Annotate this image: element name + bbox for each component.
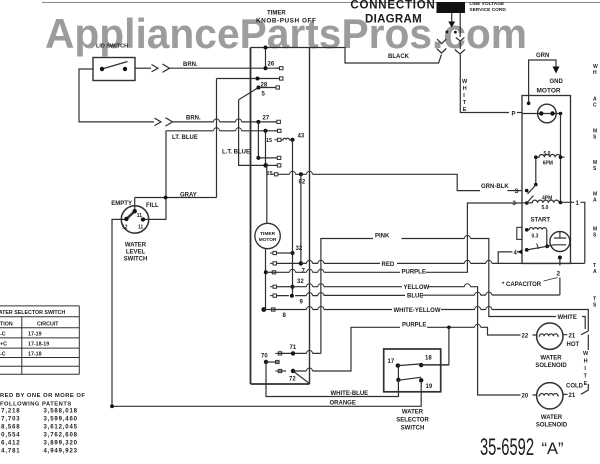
wire BRN upper from lid switch [135, 67, 151, 69]
svg-text:18: 18 [425, 356, 432, 362]
svg-text:WATER: WATER [540, 356, 562, 362]
svg-text:S: S [515, 189, 519, 195]
svg-text:START: START [531, 218, 551, 224]
timer box left edge [250, 48, 252, 385]
svg-text:A: A [593, 198, 597, 204]
motor centrifugal blade S [528, 185, 536, 194]
white-blue wire [266, 362, 399, 397]
start winding coil [527, 228, 547, 230]
svg-text:ORANGE: ORANGE [330, 401, 356, 407]
svg-text:3,588,018: 3,588,018 [44, 409, 78, 415]
svg-text:62: 62 [299, 180, 306, 186]
svg-text:-C: -C [0, 332, 6, 338]
motor pin 3 blade [527, 196, 534, 204]
svg-text:PURPLE: PURPLE [402, 270, 426, 276]
svg-text:17: 17 [388, 359, 395, 365]
white-yellow wire pin8 [264, 310, 589, 332]
svg-text:43: 43 [298, 134, 305, 140]
svg-text:17-18: 17-18 [28, 352, 42, 358]
pin 72 dot + blade [291, 369, 295, 373]
svg-text:-C: -C [0, 352, 6, 358]
svg-text:E: E [463, 107, 467, 113]
wire 62 to pin 7 vertical [300, 174, 302, 263]
svg-text:14,781: 14,781 [0, 449, 20, 455]
svg-text:EMPTY: EMPTY [111, 201, 132, 207]
svg-text:BRN.: BRN. [183, 62, 198, 68]
svg-text:+C: +C [0, 342, 7, 348]
lid switch box [93, 58, 135, 81]
pin 32a wire [277, 252, 293, 254]
start switch riser [546, 230, 548, 247]
table text [0, 310, 65, 358]
solenoid hot circle [537, 323, 563, 349]
svg-text:88,568: 88,568 [0, 425, 20, 431]
svg-text:WATER: WATER [125, 243, 147, 249]
pink wire pin71 [321, 239, 585, 354]
timer pin 15 coil + 43 vertical [282, 138, 293, 140]
svg-text:WHITE-BLUE: WHITE-BLUE [331, 391, 369, 397]
svg-text:WATER SELECTOR SWITCH: WATER SELECTOR SWITCH [0, 310, 65, 316]
motor tab rect [517, 227, 522, 239]
white-yellow drop to solenoid 21 hot [563, 331, 588, 335]
motor main winding coil [536, 154, 565, 157]
svg-text:GRN: GRN [536, 53, 549, 59]
wire L.T. BLUE second (pin5 blade drop) [239, 100, 266, 166]
svg-text:17-18-19: 17-18-19 [28, 342, 49, 348]
purple2 wire pin72 to solenoid 22 [293, 327, 537, 371]
orange wire [112, 392, 421, 407]
wire water level right contact [143, 131, 166, 220]
svg-text:67,703: 67,703 [0, 417, 20, 423]
svg-text:WHITE: WHITE [558, 315, 577, 321]
svg-text:32: 32 [296, 246, 303, 252]
svg-text:H: H [584, 359, 588, 365]
wire LT BLUE to timer [166, 130, 278, 132]
timer box right edge [309, 48, 311, 385]
wire water level empty drop [112, 219, 126, 406]
motor rotor circle [538, 104, 557, 123]
svg-text:HOT: HOT [567, 342, 580, 348]
motor rotor line [522, 113, 561, 115]
svg-text:6PM: 6PM [543, 161, 553, 167]
svg-text:4PM: 4PM [542, 196, 552, 202]
blade pin 5 [239, 88, 259, 100]
svg-text:CONNECTION: CONNECTION [350, 0, 435, 12]
right edge fragments [593, 64, 598, 309]
wire BRN lower to timer pin 27 [173, 121, 277, 123]
timer pin 5 dot [257, 86, 261, 90]
svg-text:3,612,045: 3,612,045 [44, 425, 78, 431]
svg-text:12: 12 [122, 225, 128, 231]
svg-text:L.T. BLUE: L.T. BLUE [222, 150, 250, 156]
plug connector chevrons right [455, 38, 465, 55]
wire WHITE drop to motor P [460, 55, 509, 113]
svg-text:27: 27 [263, 116, 270, 122]
svg-text:BLACK: BLACK [388, 54, 410, 60]
svg-text:GND: GND [550, 79, 564, 85]
svg-text:22: 22 [522, 334, 529, 340]
connector chevrons BRN lower [166, 118, 173, 126]
motor box [522, 96, 571, 264]
patent text [0, 393, 85, 455]
svg-text:21: 21 [569, 393, 576, 399]
pin 71 wire [278, 352, 321, 354]
timer top edge / BLACK wire to plug [251, 48, 442, 64]
pin 70 [264, 360, 268, 364]
water level contacts [133, 209, 137, 213]
svg-text:2: 2 [557, 271, 561, 278]
gray junction dot [164, 196, 168, 200]
timer pin 28 dot [256, 77, 260, 81]
selector blades [398, 364, 421, 366]
svg-text:RED: RED [382, 262, 395, 268]
svg-text:COLD: COLD [566, 384, 584, 390]
wire GRN [529, 60, 556, 103]
svg-text:TION: TION [0, 322, 13, 328]
svg-text:A: A [593, 269, 597, 275]
svg-text:4,949,923: 4,949,923 [44, 449, 78, 455]
lid switch contact dots [100, 67, 104, 71]
water level switch circle [121, 206, 148, 233]
svg-text:DIAGRAM: DIAGRAM [365, 14, 422, 26]
svg-text:SOLENOID: SOLENOID [535, 363, 567, 369]
svg-text:SOLENOID: SOLENOID [536, 423, 568, 429]
svg-text:“A”: “A” [542, 440, 564, 458]
plug black rect [437, 2, 466, 13]
svg-text:LT. BLUE: LT. BLUE [172, 135, 198, 141]
svg-text:WHITE-YELLOW: WHITE-YELLOW [394, 308, 441, 314]
capacitor pointer line [544, 278, 558, 282]
motor pin 1 stub [561, 202, 585, 263]
svg-text:LID SWITCH: LID SWITCH [96, 44, 128, 50]
svg-text:5.0: 5.0 [542, 205, 549, 211]
timer pin 26 dot [264, 66, 268, 70]
connector chevrons BRN upper [163, 64, 170, 72]
svg-text:MOTOR: MOTOR [537, 88, 561, 95]
timer pin 131 dot [264, 129, 268, 133]
svg-text:P: P [512, 112, 516, 118]
wire BRN upper to timer pin 26 [170, 67, 280, 69]
capacitor circle [550, 232, 570, 252]
start switch blade pin 4 [527, 246, 548, 250]
svg-text:26: 26 [268, 62, 275, 68]
timer motor circle [255, 223, 280, 248]
svg-text:LEVEL: LEVEL [126, 250, 146, 256]
svg-text:H: H [593, 70, 597, 76]
yellow wire pin32b to solenoid 20 [277, 286, 293, 288]
wire gray horizontal [135, 197, 217, 199]
wire cap 2 drop [559, 258, 561, 295]
svg-text:11: 11 [138, 225, 144, 231]
svg-text:5.0: 5.0 [544, 151, 551, 157]
svg-text:90,554: 90,554 [0, 433, 20, 439]
svg-text:PURPLE: PURPLE [402, 323, 426, 329]
plug left arrowhead [448, 22, 455, 28]
svg-text:CIRCUIT: CIRCUIT [37, 322, 59, 328]
svg-text:MOTOR: MOTOR [259, 237, 277, 243]
GND arrowhead [553, 67, 560, 74]
table lines [0, 306, 79, 374]
blue wire pin9 to capacitor 2 [277, 294, 560, 297]
svg-text:36,412: 36,412 [0, 441, 20, 447]
svg-text:* CAPACITOR: * CAPACITOR [502, 282, 542, 288]
svg-text:15: 15 [267, 171, 273, 177]
water selector switch box [384, 349, 441, 392]
svg-text:GRN-BLK: GRN-BLK [481, 184, 509, 190]
svg-text:GRAY: GRAY [180, 193, 197, 199]
motor grn junction dot [527, 102, 531, 106]
svg-text:C: C [593, 103, 597, 109]
wire fill contact riser [134, 198, 136, 212]
timer terminal stubs [269, 67, 284, 373]
svg-text:E: E [584, 381, 588, 387]
svg-text:PINK: PINK [375, 234, 390, 240]
svg-text:21: 21 [569, 333, 576, 339]
svg-text:FOLLOWING PATENTS: FOLLOWING PATENTS [0, 401, 72, 407]
svg-text:WATER: WATER [402, 410, 424, 416]
line voltage plug drop left [451, 13, 453, 22]
svg-text:17-19: 17-19 [28, 332, 42, 338]
svg-text:3,599,460: 3,599,460 [44, 417, 78, 423]
wire pin 28 [217, 78, 280, 80]
svg-text:H: H [463, 86, 467, 92]
svg-text:SERVICE CORD: SERVICE CORD [469, 7, 506, 13]
svg-text:RED BY ONE OR MORE OF: RED BY ONE OR MORE OF [0, 393, 85, 399]
svg-text:15: 15 [266, 138, 272, 144]
timer box bottom edge [251, 383, 310, 385]
svg-text:LINE VOLTAGE: LINE VOLTAGE [469, 1, 505, 7]
svg-text:SWITCH: SWITCH [124, 257, 148, 263]
pin 26 riser [265, 48, 267, 69]
selector 18 riser [447, 326, 451, 330]
wire gray vertical to pin 28 [216, 79, 218, 198]
plug drop right [459, 13, 461, 49]
svg-text:KNOB-PUSH OFF: KNOB-PUSH OFF [256, 18, 316, 25]
svg-text:35-6592: 35-6592 [480, 434, 534, 461]
svg-text:20: 20 [522, 394, 529, 400]
svg-text:3,762,608: 3,762,608 [44, 433, 78, 439]
svg-text:TIMER: TIMER [260, 231, 275, 237]
svg-text:BLUE: BLUE [407, 294, 423, 300]
pin 7 wire / RED [277, 262, 301, 264]
plug connector chevrons left [437, 39, 447, 53]
svg-text:BRN.: BRN. [186, 116, 201, 122]
svg-text:3,899,320: 3,899,320 [44, 441, 78, 447]
svg-text:72: 72 [289, 377, 296, 383]
svg-text:28: 28 [261, 83, 268, 89]
motor left winding vertical [535, 157, 537, 184]
svg-text:W: W [462, 79, 468, 85]
svg-text:37,218: 37,218 [0, 409, 20, 415]
timer pin 27 dot + blade down [256, 120, 260, 124]
svg-text:FILL: FILL [146, 203, 159, 209]
solenoid cold circle [537, 383, 563, 409]
wire 15-62 to GRN-BLK and motor S [278, 174, 480, 190]
svg-text:TIMER: TIMER [267, 11, 286, 17]
connector dots [446, 31, 449, 34]
svg-text:0.3: 0.3 [532, 234, 539, 240]
svg-text:SELECTOR: SELECTOR [396, 418, 429, 424]
svg-text:WATER: WATER [541, 415, 563, 421]
svg-text:19: 19 [426, 384, 433, 390]
water level blade [126, 211, 134, 219]
svg-text:W: W [583, 351, 589, 357]
purple1 wire to motor 3 [266, 203, 522, 272]
svg-text:YELLOW: YELLOW [404, 285, 430, 291]
motor aux winding coil [522, 200, 561, 203]
svg-text:11: 11 [137, 213, 143, 219]
svg-text:32: 32 [297, 279, 304, 285]
motor right vertical [560, 114, 562, 203]
svg-text:70: 70 [261, 354, 268, 360]
solenoid cold right wire [563, 384, 588, 394]
wire lid switch left loop [79, 69, 154, 122]
pin 4 wire arrow [498, 252, 522, 263]
lid switch blade [102, 62, 128, 70]
top border line [42, 2, 600, 4]
svg-text:71: 71 [290, 345, 297, 351]
svg-text:SWITCH: SWITCH [401, 426, 425, 432]
